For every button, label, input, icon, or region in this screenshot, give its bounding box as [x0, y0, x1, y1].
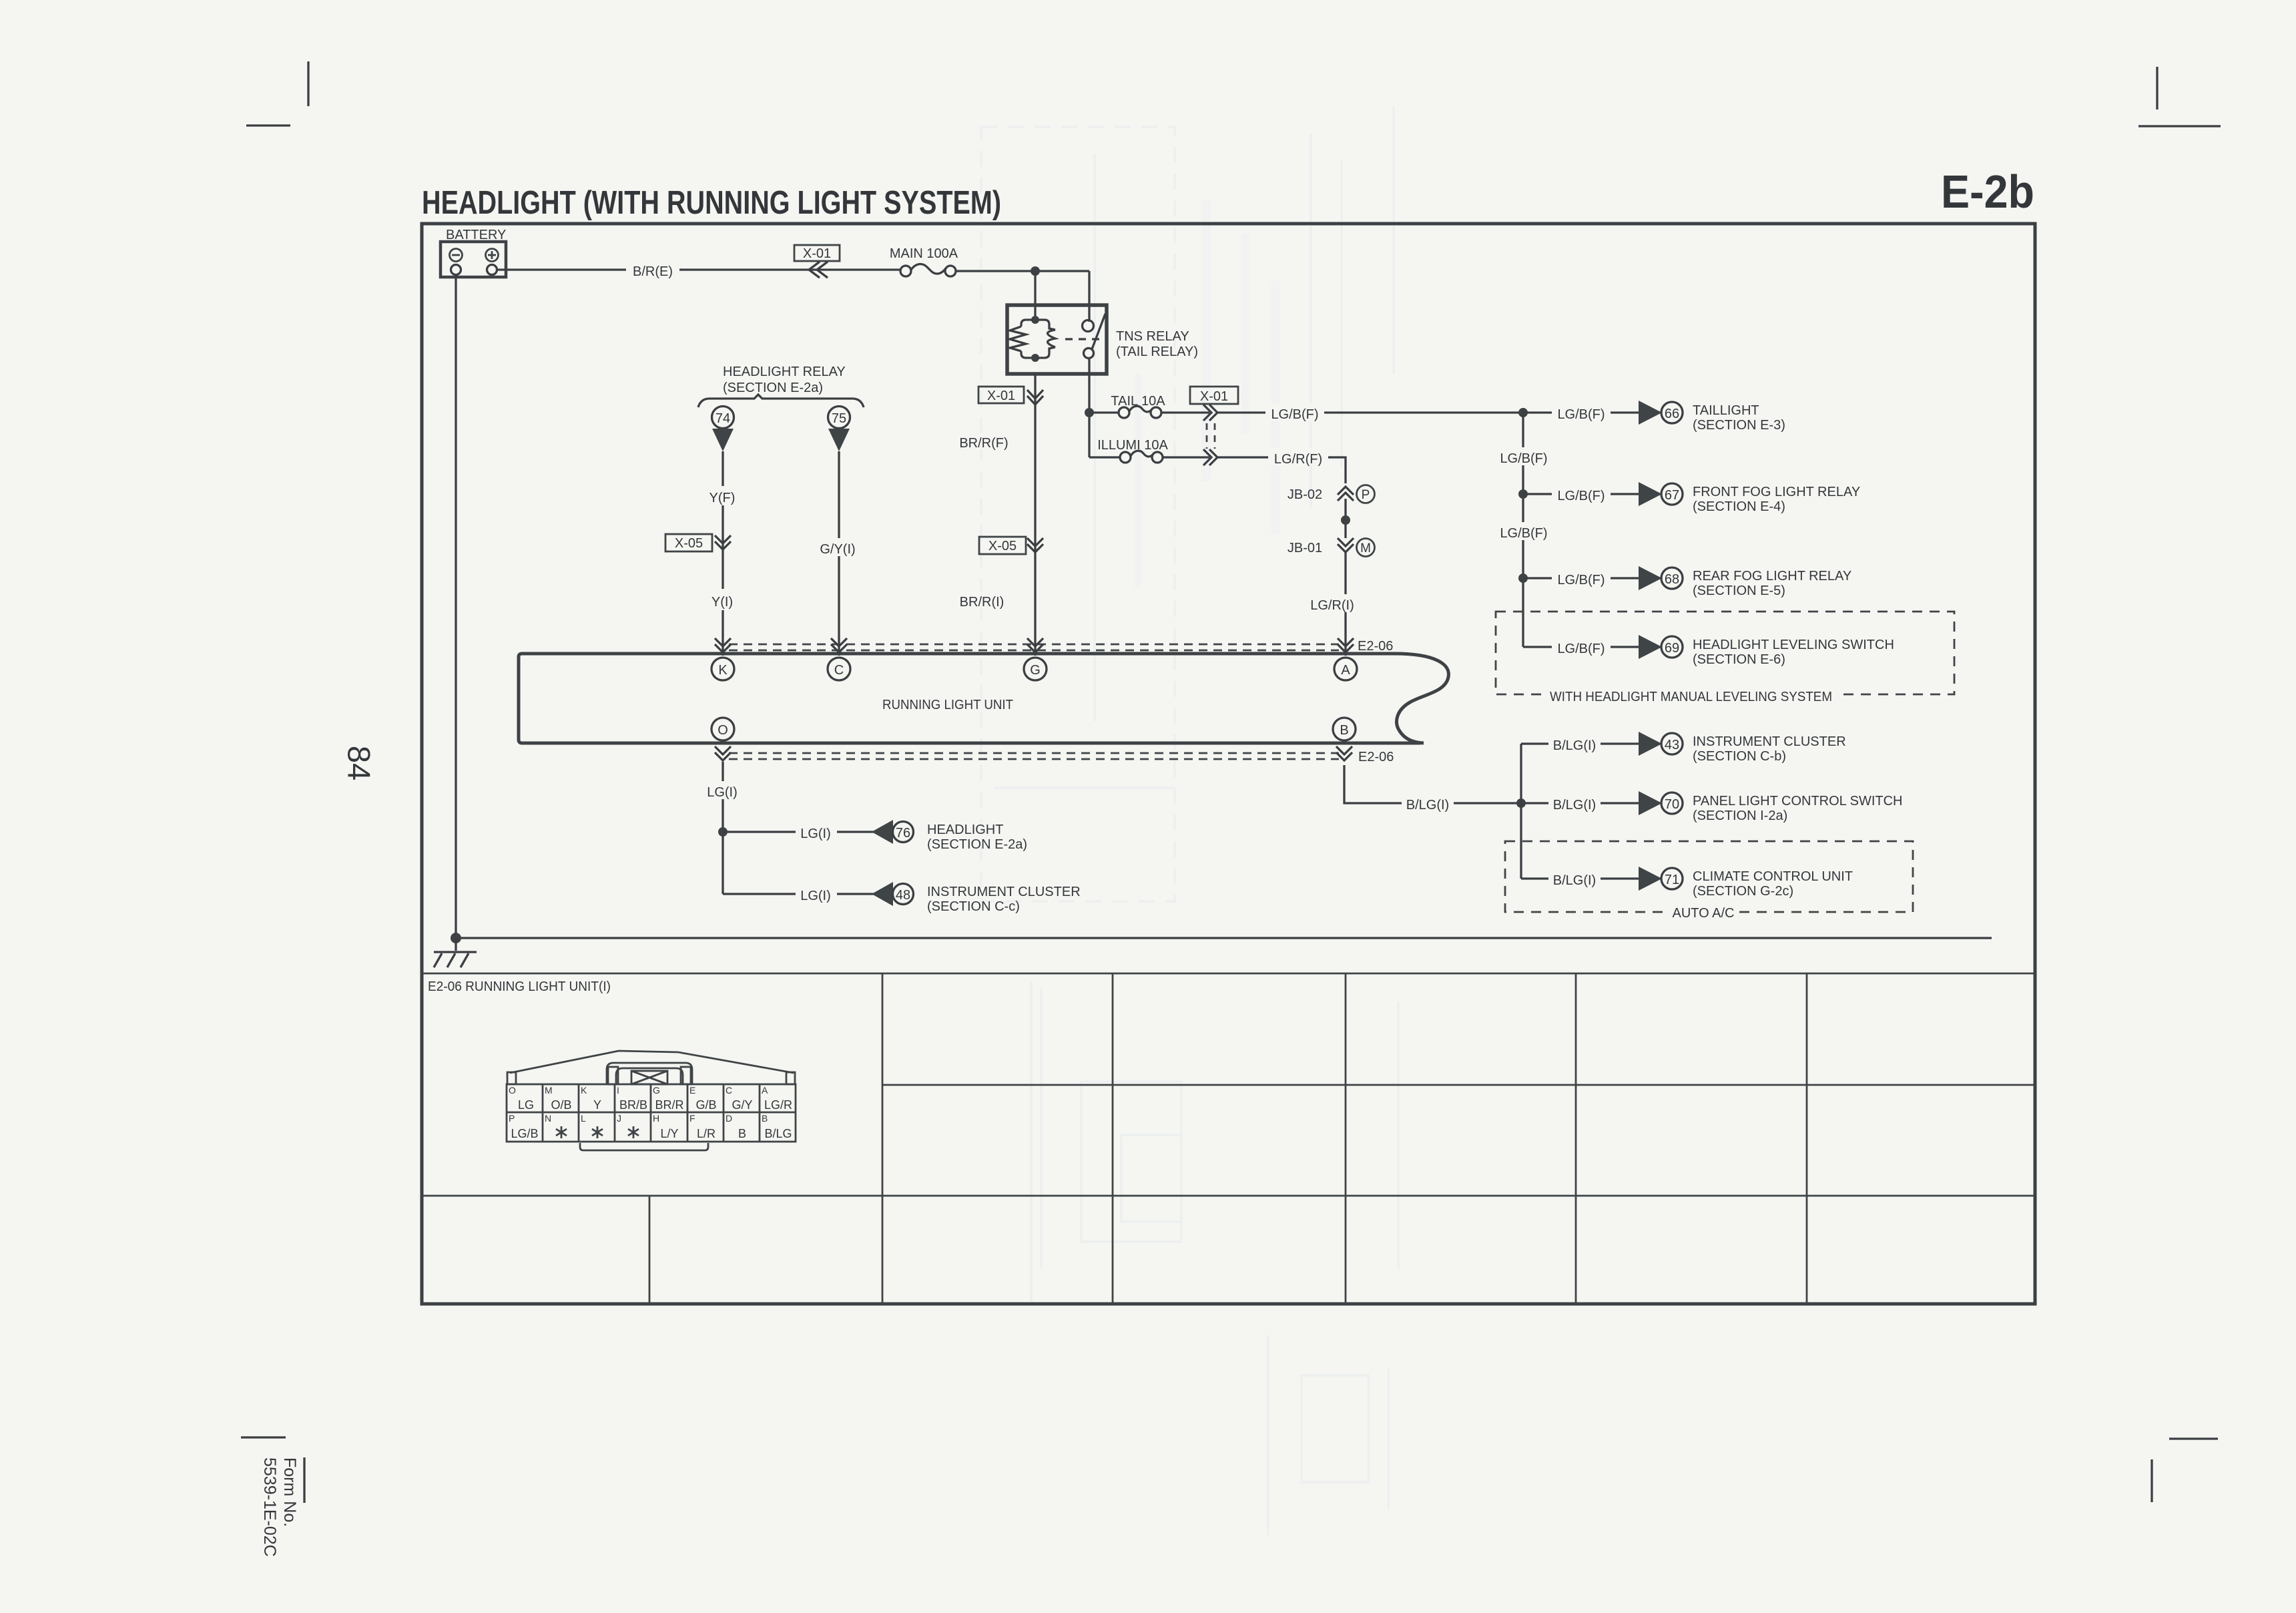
wire row 48 elbow	[723, 893, 874, 895]
connector chevron C	[831, 638, 847, 652]
connector pinout grid	[507, 1084, 796, 1142]
svg-text:66: 66	[1665, 407, 1679, 421]
wire row 43	[1521, 742, 1640, 744]
svg-text:71: 71	[1665, 873, 1679, 887]
svg-text:JB-02: JB-02	[1287, 487, 1322, 502]
svg-text:(SECTION E-6): (SECTION E-6)	[1693, 652, 1785, 667]
svg-text:(SECTION E-2a): (SECTION E-2a)	[723, 381, 823, 395]
label G/Y(I)	[816, 538, 861, 557]
fuse TAIL 10A	[1089, 394, 1209, 418]
svg-text:84: 84	[342, 746, 377, 780]
svg-text:HEADLIGHT: HEADLIGHT	[927, 823, 1003, 837]
svg-text:(SECTION E-2a): (SECTION E-2a)	[927, 837, 1027, 852]
label Y(I)	[707, 592, 739, 610]
svg-text:B/LG(I): B/LG(I)	[1553, 738, 1596, 753]
label LG/B(F) row 67	[1552, 485, 1611, 503]
label BR/R(I)	[954, 592, 1009, 610]
svg-text:LG/B(F): LG/B(F)	[1500, 526, 1547, 541]
wire LG(I) from O terminal	[722, 762, 724, 894]
connector chevron O	[715, 746, 731, 760]
svg-text:X-05: X-05	[675, 536, 703, 551]
svg-text:L/Y: L/Y	[660, 1127, 678, 1140]
dashed box leveling system	[1496, 612, 1954, 694]
ground symbol	[434, 938, 477, 967]
svg-text:LG(I): LG(I)	[800, 827, 831, 841]
svg-text:B: B	[762, 1113, 768, 1124]
connector pin values row 2	[511, 1127, 792, 1140]
label LG(I) row 76	[796, 823, 837, 841]
svg-text:B/LG(I): B/LG(I)	[1553, 798, 1596, 813]
svg-text:B/R(E): B/R(E)	[633, 264, 673, 279]
svg-text:O/B: O/B	[551, 1098, 571, 1112]
svg-text:N: N	[545, 1113, 551, 1124]
wire from fuse to TNS relay	[956, 270, 1089, 272]
svg-text:LG/B: LG/B	[511, 1127, 538, 1140]
wire BR/R(F) relay coil to X-05	[1034, 374, 1036, 656]
label LG/B(F) row 69	[1552, 638, 1611, 656]
terminal K	[711, 658, 734, 680]
wire Y(F) from 74 down	[722, 451, 724, 486]
svg-text:D: D	[726, 1113, 732, 1124]
svg-text:K: K	[718, 663, 728, 678]
svg-text:LG/B(F): LG/B(F)	[1557, 407, 1605, 422]
label LG/R(I)	[1304, 594, 1360, 613]
svg-text:B/LG(I): B/LG(I)	[1553, 873, 1596, 888]
svg-text:B/LG(I): B/LG(I)	[1406, 798, 1449, 813]
svg-text:RUNNING LIGHT UNIT: RUNNING LIGHT UNIT	[882, 698, 1013, 712]
svg-text:JB-01: JB-01	[1287, 541, 1322, 555]
svg-text:68: 68	[1665, 572, 1679, 587]
svg-text:HEADLIGHT (WITH RUNNING LIGHT: HEADLIGHT (WITH RUNNING LIGHT SYSTEM)	[422, 185, 1001, 221]
svg-text:LG/R(F): LG/R(F)	[1274, 452, 1322, 467]
node junction row 70	[1516, 798, 1526, 808]
svg-text:WITH HEADLIGHT MANUAL LEVELING: WITH HEADLIGHT MANUAL LEVELING SYSTEM	[1550, 690, 1832, 704]
svg-text:F: F	[689, 1113, 695, 1124]
connector pin letters row 2	[509, 1113, 768, 1124]
label B/LG(I) row 70	[1548, 794, 1601, 813]
svg-text:Form No.: Form No.	[280, 1457, 299, 1527]
svg-text:K: K	[581, 1085, 587, 1096]
svg-text:(SECTION E-5): (SECTION E-5)	[1693, 584, 1785, 598]
svg-text:TNS RELAY: TNS RELAY	[1116, 329, 1189, 344]
svg-text:P: P	[1362, 488, 1370, 502]
terminal C	[828, 658, 850, 680]
svg-text:LG/R(I): LG/R(I)	[1310, 598, 1354, 613]
connector chevron G	[1027, 638, 1043, 652]
dashed box auto a/c	[1505, 841, 1913, 912]
label B/LG(I) row 43	[1548, 734, 1601, 753]
crop mark top-right	[2138, 67, 2221, 126]
svg-text:E2-06 RUNNING LIGHT UNIT(I): E2-06 RUNNING LIGHT UNIT(I)	[428, 979, 611, 994]
label LG/B(F) row 68	[1552, 569, 1611, 588]
wire row 76	[723, 831, 874, 833]
label WITH HEADLIGHT MANUAL LEVELING SYSTEM	[1545, 686, 1839, 705]
svg-text:(SECTION G-2c): (SECTION G-2c)	[1693, 884, 1793, 899]
wire row 67	[1523, 493, 1640, 495]
svg-text:LG/B(F): LG/B(F)	[1557, 489, 1605, 503]
svg-text:(SECTION C-c): (SECTION C-c)	[927, 899, 1020, 914]
wire row 71	[1521, 877, 1640, 879]
label LG/B(F) row 66	[1552, 403, 1611, 422]
wire LG/R(F) to JB riser	[1217, 457, 1346, 483]
harness dashed bus top E2-06	[729, 644, 1339, 650]
svg-text:A: A	[762, 1085, 768, 1096]
svg-text:43: 43	[1665, 738, 1679, 752]
connector JB-01 pin M	[1287, 538, 1375, 557]
svg-text:B: B	[738, 1127, 746, 1140]
relay TNS RELAY (TAIL RELAY)	[1007, 305, 1198, 374]
node junction on JB riser	[1341, 515, 1350, 525]
wire Y to X-05	[722, 505, 724, 589]
svg-text:69: 69	[1665, 641, 1679, 656]
connector pin letters row 1	[509, 1085, 768, 1096]
wire B/LG(I) from B terminal	[1344, 765, 1640, 803]
svg-text:TAILLIGHT: TAILLIGHT	[1693, 403, 1759, 418]
svg-text:70: 70	[1665, 797, 1679, 812]
wire row 66 to taillight	[1523, 411, 1640, 413]
svg-text:E2-06: E2-06	[1358, 750, 1394, 764]
svg-text:O: O	[509, 1085, 516, 1096]
node junction row 66	[1518, 408, 1528, 417]
svg-text:BR/R(I): BR/R(I)	[960, 595, 1005, 610]
label B/LG(I) left	[1402, 794, 1454, 813]
svg-text:Y(I): Y(I)	[711, 595, 733, 610]
fuse ILLUMI 10A	[1089, 438, 1209, 463]
terminal 74	[712, 407, 734, 452]
arrow 48 INSTRUMENT CLUSTER	[872, 882, 1081, 914]
svg-text:O: O	[718, 723, 728, 738]
label LG(I) row 48	[796, 885, 837, 903]
svg-text:75: 75	[832, 411, 846, 426]
svg-text:X-01: X-01	[1200, 389, 1228, 404]
svg-text:C: C	[834, 663, 844, 678]
svg-text:HEADLIGHT LEVELING SWITCH: HEADLIGHT LEVELING SWITCH	[1693, 638, 1894, 652]
svg-text:M: M	[1360, 541, 1371, 555]
arrow 76 HEADLIGHT	[872, 820, 1027, 852]
svg-text:LG(I): LG(I)	[707, 785, 738, 800]
svg-text:E2-06: E2-06	[1358, 639, 1393, 654]
node junction row 76	[718, 827, 728, 837]
svg-text:BR/R(F): BR/R(F)	[959, 436, 1008, 451]
wire LG/B(F) fuse to bus junction	[1217, 411, 1523, 413]
svg-text:MAIN 100A: MAIN 100A	[890, 246, 958, 261]
node junction row 67	[1518, 489, 1528, 499]
svg-text:X-01: X-01	[803, 246, 831, 261]
svg-text:(SECTION E-3): (SECTION E-3)	[1693, 418, 1785, 433]
wire G/Y(I) from 75 down to C terminal	[838, 451, 840, 656]
fuse MAIN 100A	[890, 246, 958, 276]
connector pinout housing	[507, 1051, 795, 1150]
svg-text:(SECTION E-4): (SECTION E-4)	[1693, 499, 1785, 514]
svg-text:FRONT FOG LIGHT RELAY: FRONT FOG LIGHT RELAY	[1693, 485, 1860, 499]
svg-text:LG/R: LG/R	[764, 1098, 792, 1112]
svg-text:L: L	[581, 1113, 586, 1124]
svg-text:INSTRUMENT CLUSTER: INSTRUMENT CLUSTER	[1693, 734, 1846, 749]
svg-text:AUTO A/C: AUTO A/C	[1673, 906, 1735, 921]
svg-text:ILLUMI 10A: ILLUMI 10A	[1097, 438, 1168, 453]
svg-text:H: H	[653, 1113, 659, 1124]
ground bus wire	[456, 937, 1992, 939]
arrow 68 REAR FOG LIGHT RELAY	[1639, 566, 1851, 598]
svg-text:LG(I): LG(I)	[800, 889, 831, 903]
arrow 71 CLIMATE CONTROL UNIT	[1639, 867, 1853, 899]
running light unit box	[519, 654, 1448, 743]
svg-text:LG/B(F): LG/B(F)	[1271, 407, 1318, 422]
crop mark top-left	[246, 61, 308, 126]
svg-text:PANEL LIGHT CONTROL SWITCH: PANEL LIGHT CONTROL SWITCH	[1693, 794, 1902, 809]
svg-text:G: G	[653, 1085, 660, 1096]
svg-text:G/B: G/B	[695, 1098, 716, 1112]
svg-text:48: 48	[896, 888, 910, 903]
connector chevron A	[1338, 638, 1354, 652]
svg-text:P: P	[509, 1113, 515, 1124]
headlight relay bracket HEADLIGHT RELAY (SECTION E-2a)	[698, 365, 864, 407]
svg-text:C: C	[726, 1085, 732, 1096]
svg-text:LG/B(F): LG/B(F)	[1500, 451, 1547, 466]
switch contacts	[1083, 320, 1094, 332]
connector X-01 (fuse block)	[1190, 387, 1238, 465]
dashed link coil to switch	[1065, 338, 1101, 340]
svg-text:E-2b: E-2b	[1941, 166, 2034, 218]
label AUTO A/C	[1669, 903, 1738, 921]
label LG/B(F) TAIL	[1265, 403, 1324, 422]
label LG(I) on O wire	[702, 781, 744, 800]
wire switch feed down	[1088, 271, 1090, 322]
terminal O	[711, 718, 734, 740]
svg-text:E: E	[689, 1085, 695, 1096]
svg-text:LG/B(F): LG/B(F)	[1557, 573, 1605, 588]
connector X-01 (battery feed)	[794, 245, 840, 278]
wire row 69	[1523, 646, 1640, 648]
svg-text:BR/R: BR/R	[655, 1098, 683, 1112]
wire battery negative to ground bus	[455, 274, 457, 938]
battery BATTERY	[441, 228, 506, 277]
svg-text:B: B	[1340, 723, 1348, 738]
svg-text:J: J	[617, 1113, 621, 1124]
wire B/LG riser	[1520, 744, 1522, 879]
svg-text:Y(F): Y(F)	[709, 491, 736, 505]
svg-text:INSTRUMENT CLUSTER: INSTRUMENT CLUSTER	[927, 885, 1081, 899]
svg-text:CLIMATE CONTROL UNIT: CLIMATE CONTROL UNIT	[1693, 869, 1853, 884]
node ground junction	[451, 933, 461, 943]
svg-text:LG: LG	[518, 1098, 534, 1112]
arrow 70 PANEL LIGHT CONTROL SWITCH	[1639, 791, 1902, 823]
svg-text:76: 76	[896, 826, 910, 841]
svg-text:BATTERY: BATTERY	[446, 228, 506, 242]
svg-text:X-05: X-05	[988, 539, 1017, 553]
connector JB-02 pin P	[1287, 485, 1375, 539]
svg-text:A: A	[1341, 663, 1350, 678]
svg-text:G/Y: G/Y	[732, 1098, 752, 1112]
crop mark bottom-left	[241, 1437, 304, 1503]
svg-text:B/LG: B/LG	[764, 1127, 792, 1140]
crop mark bottom-right	[2152, 1439, 2218, 1502]
wire coil feed down	[1034, 271, 1036, 320]
svg-text:67: 67	[1665, 488, 1679, 503]
node junction at relay coil feed	[1031, 266, 1040, 276]
arrow 67 FRONT FOG LIGHT RELAY	[1639, 482, 1860, 514]
wire switch to TAIL/ILLUMI junction	[1088, 359, 1090, 457]
connector X-05 on BR/R wire	[979, 537, 1043, 554]
arrow 66 TAILLIGHT	[1639, 401, 1785, 433]
coil of TNS relay	[1010, 316, 1055, 362]
svg-text:Y: Y	[593, 1098, 601, 1112]
label BR/R(F)	[956, 433, 1012, 451]
arrow 69 HEADLIGHT LEVELING SWITCH	[1639, 635, 1894, 667]
wire row 68	[1523, 577, 1640, 579]
svg-text:L/R: L/R	[697, 1127, 715, 1140]
svg-text:REAR FOG LIGHT RELAY: REAR FOG LIGHT RELAY	[1693, 569, 1851, 584]
connector X-01 on coil wire	[978, 387, 1043, 405]
connector chevron K	[715, 638, 731, 652]
svg-text:74: 74	[715, 411, 730, 426]
arrow 43 INSTRUMENT CLUSTER	[1639, 732, 1846, 764]
harness dashed bus bottom E2-06	[729, 753, 1339, 759]
wire LG/R(I) to A terminal	[1344, 552, 1346, 656]
label LG/B(F) bus upper	[1494, 447, 1553, 466]
table grid	[422, 973, 2035, 1304]
svg-text:(TAIL RELAY): (TAIL RELAY)	[1116, 344, 1198, 359]
node junction TAIL feed	[1085, 408, 1094, 417]
terminal B	[1333, 718, 1356, 740]
terminal 75	[828, 407, 850, 452]
terminal G	[1024, 658, 1047, 680]
svg-text:X-01: X-01	[987, 389, 1015, 403]
label Y(F)	[706, 487, 741, 505]
node junction row 68	[1518, 573, 1528, 583]
connector chevron B	[1336, 746, 1352, 760]
svg-text:LG/B(F): LG/B(F)	[1557, 642, 1605, 656]
svg-text:HEADLIGHT RELAY: HEADLIGHT RELAY	[723, 365, 846, 379]
svg-text:I: I	[617, 1085, 619, 1096]
label B/R(E)	[626, 260, 679, 279]
svg-text:(SECTION I-2a): (SECTION I-2a)	[1693, 809, 1787, 823]
page border	[422, 224, 2035, 1304]
connector X-05 on Y wire	[665, 534, 731, 551]
label LG/R(F)	[1268, 448, 1328, 467]
label LG/B(F) bus lower	[1494, 522, 1553, 541]
svg-text:G: G	[1030, 663, 1041, 678]
svg-text:G/Y(I): G/Y(I)	[820, 542, 855, 557]
connector pin stars	[556, 1126, 639, 1138]
wire LG/B(F) bus vertical	[1522, 413, 1524, 647]
wire B/R(E) from battery to MAIN fuse	[497, 268, 900, 270]
svg-text:BR/B: BR/B	[619, 1098, 647, 1112]
terminal A	[1334, 658, 1357, 680]
connector pin values row 1	[518, 1098, 792, 1112]
svg-text:(SECTION C-b): (SECTION C-b)	[1693, 749, 1786, 764]
svg-text:M: M	[545, 1085, 553, 1096]
svg-text:5539-1E-02C: 5539-1E-02C	[260, 1457, 279, 1557]
label B/LG(I) row 71	[1548, 869, 1601, 888]
wire Y(I) to K terminal	[722, 610, 724, 656]
